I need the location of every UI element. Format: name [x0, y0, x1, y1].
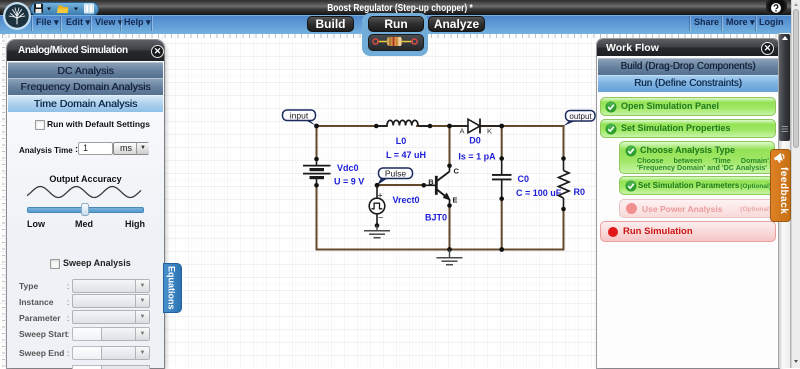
- green btn: open simulation panel: [600, 97, 776, 116]
- svg-text:L = 47 uH: L = 47 uH: [386, 150, 426, 160]
- wire battery to bottom: [316, 184, 318, 251]
- menu bar: [0, 15, 800, 34]
- node C0-bottom junction: [499, 247, 504, 252]
- label BJT0: [425, 213, 447, 223]
- inductor L0: [376, 120, 430, 126]
- node pulse junction: [375, 183, 380, 188]
- svg-text:Vrect0: Vrect0: [393, 195, 420, 205]
- label L0: [396, 136, 407, 146]
- svg-text:C0: C0: [518, 174, 530, 184]
- battery Vdc0: [303, 160, 331, 184]
- toolbar icon pill: [30, 2, 99, 16]
- node diode-collector junction: [447, 124, 452, 129]
- value U = 9 V: [334, 177, 364, 187]
- wire C0 branch top: [501, 126, 503, 159]
- wire bottom horizontal: [316, 249, 565, 251]
- svg-text:output: output: [569, 112, 592, 121]
- node top-left junction: [314, 124, 319, 129]
- wire top-middle horizontal: [416, 125, 470, 127]
- equations tab: [163, 263, 182, 313]
- svg-text:−: −: [378, 213, 383, 223]
- node collector pin: [447, 164, 452, 169]
- wire C0 branch bottom: [501, 198, 503, 250]
- ground bottom rail: [437, 250, 463, 265]
- node emitter-bottom junction: [447, 247, 452, 252]
- svg-text:C = 100 uF: C = 100 uF: [516, 188, 562, 198]
- svg-text:E: E: [453, 196, 458, 205]
- net label input: [283, 110, 317, 126]
- svg-text:K: K: [487, 127, 492, 136]
- sine wave: [27, 183, 143, 201]
- right gutter (page scrollbar): [791, 0, 800, 368]
- svg-text:C: C: [454, 167, 460, 176]
- node R0 pin top: [561, 156, 566, 161]
- slider: [27, 207, 144, 213]
- node R0 pin bottom: [561, 207, 566, 212]
- wire emitter to bottom: [449, 205, 451, 250]
- wire right vertical top: [563, 126, 565, 159]
- svg-text:+: +: [378, 191, 383, 201]
- green btn: choose analysis type: [619, 141, 775, 174]
- wire right vertical bottom: [563, 208, 565, 251]
- value C = 100 uF: [516, 188, 562, 198]
- checkbox run default: [35, 120, 45, 130]
- label D0: [469, 136, 481, 146]
- node diode-C0 junction: [499, 124, 504, 129]
- app logo: [2, 1, 32, 31]
- resistor icon in dropdown: [370, 36, 420, 47]
- svg-text:D0: D0: [469, 136, 481, 146]
- pink btn: use power analysis: [619, 199, 775, 218]
- label C0: [518, 174, 530, 184]
- help button: [766, 0, 787, 14]
- pin label B: [428, 178, 434, 187]
- sweep analysis checkbox: [50, 259, 60, 269]
- diode D0: [450, 119, 503, 134]
- green btn: set simulation properties: [600, 119, 776, 138]
- title text: [280, 2, 520, 14]
- node pulse source bottom pin: [375, 223, 380, 228]
- red btn: run simulation: [600, 221, 776, 242]
- svg-text:BJT0: BJT0: [425, 213, 447, 223]
- svg-text:B: B: [428, 178, 434, 187]
- svg-text:R0: R0: [574, 187, 586, 197]
- form rows: [19, 281, 38, 291]
- run dropdown halo: [362, 13, 428, 56]
- green btn: set simulation parameters: [619, 176, 775, 195]
- pulse source Vrect0: [369, 185, 385, 225]
- pin label C: [454, 167, 460, 176]
- pin label E: [453, 196, 458, 205]
- minus sign: [378, 213, 383, 223]
- wire left vertical: [316, 126, 318, 160]
- output accuracy: [7, 174, 164, 184]
- LEFT PANEL: [7, 40, 164, 368]
- horizontal ruler ticks: [2, 34, 778, 38]
- header: [597, 39, 779, 56]
- WORKFLOW PANEL: [597, 39, 779, 368]
- net label output: [564, 111, 596, 127]
- feedback tab: [770, 149, 791, 222]
- svg-text:Pulse: Pulse: [385, 169, 407, 179]
- build bar: [598, 58, 778, 75]
- node emitter pin: [447, 203, 452, 208]
- header: [7, 40, 164, 61]
- ground pulse source: [364, 226, 390, 238]
- DC Analysis tab: [8, 62, 163, 79]
- svg-text:Is = 1 pA: Is = 1 pA: [458, 152, 496, 162]
- value Is = 1 pA: [458, 152, 496, 162]
- node inductor pin right: [428, 124, 433, 129]
- capacitor C0: [492, 159, 512, 198]
- value L = 47 uH: [386, 150, 426, 160]
- svg-text:A: A: [459, 127, 464, 136]
- label Vdc0: [337, 163, 359, 173]
- node battery pin top: [314, 157, 319, 162]
- resistor R0: [559, 159, 570, 209]
- wire top-left horizontal: [317, 125, 389, 127]
- run bar: [598, 75, 778, 92]
- node C0 pin bottom: [499, 197, 504, 202]
- pin label K: [487, 127, 492, 136]
- wire collector vertical: [449, 126, 451, 166]
- plus sign: [378, 191, 383, 201]
- net label Pulse: [377, 168, 413, 185]
- svg-text:L0: L0: [396, 136, 407, 146]
- save icon: [34, 3, 96, 14]
- title bar: [0, 0, 800, 15]
- vertical ruler ticks: [2, 34, 5, 368]
- wire pulse to base: [377, 184, 424, 186]
- wire top-right horizontal: [480, 125, 565, 127]
- transistor BJT0: [424, 166, 450, 205]
- analysis time row: [19, 146, 73, 155]
- svg-text:U = 9 V: U = 9 V: [334, 177, 364, 187]
- label Vrect0: [393, 195, 420, 205]
- Time Domain Analysis tab (selected): [8, 95, 163, 112]
- menu separators: [31, 16, 32, 31]
- right scrollbar: [778, 33, 791, 368]
- svg-text:input: input: [290, 111, 309, 121]
- node inductor pin left: [374, 124, 379, 129]
- node base pin: [422, 183, 427, 188]
- Build / Run / Analyze buttons: [307, 16, 354, 32]
- node battery pin bottom: [314, 183, 319, 188]
- Frequency Domain Analysis tab: [8, 78, 163, 95]
- label R0: [574, 187, 586, 197]
- pin label A: [459, 127, 464, 136]
- svg-text:Vdc0: Vdc0: [337, 163, 359, 173]
- node C0 pin top: [499, 156, 504, 161]
